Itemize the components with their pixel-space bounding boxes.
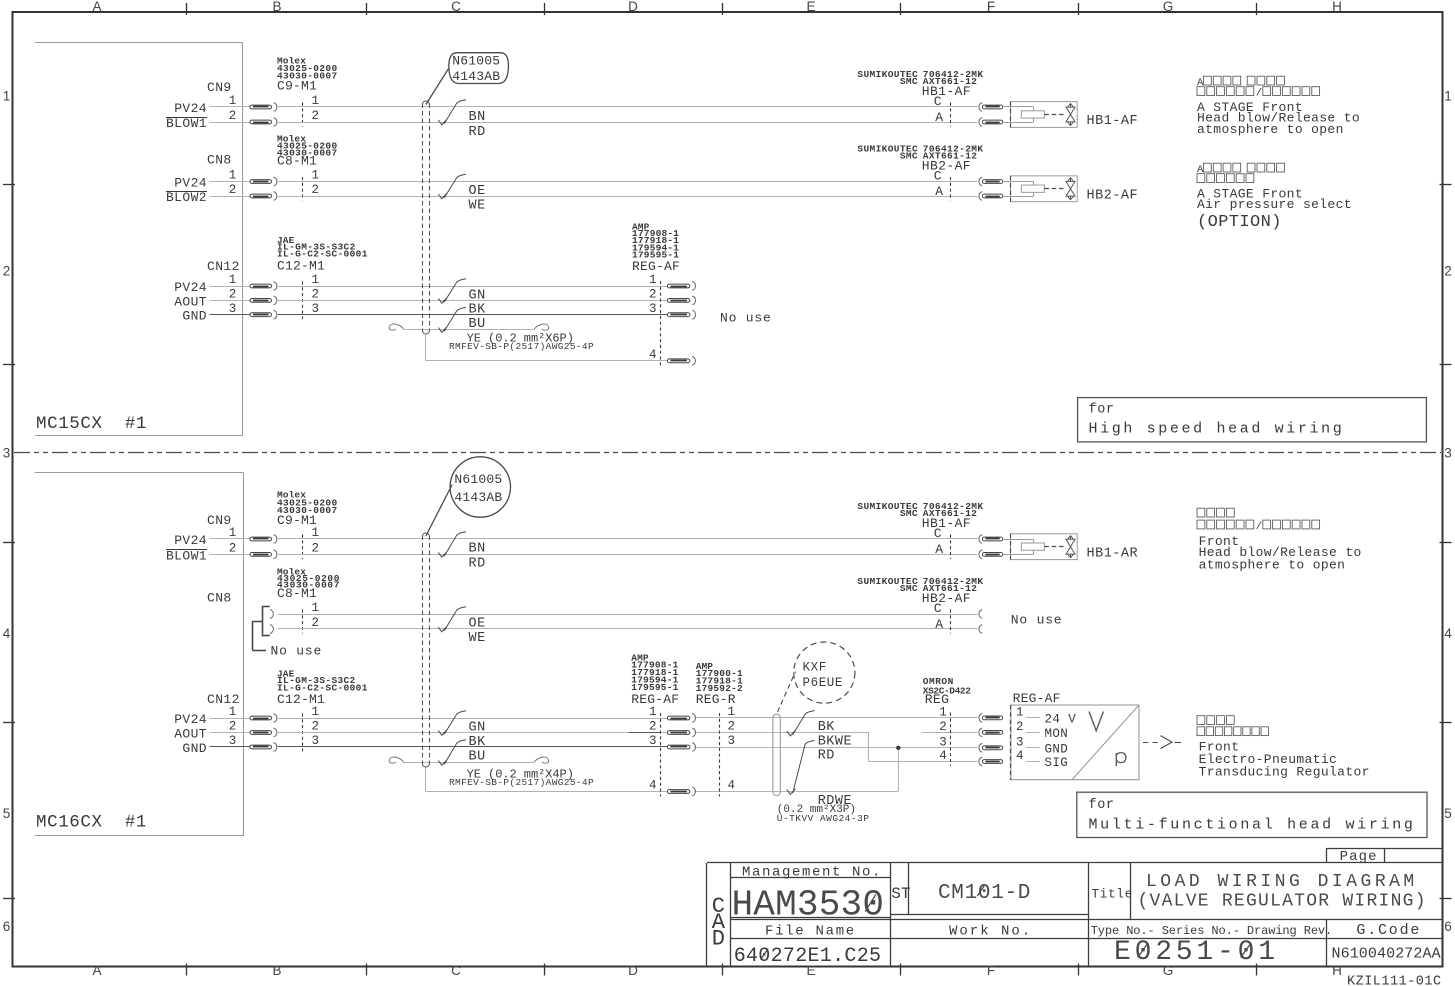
svg-text:CN12: CN12 — [207, 259, 240, 274]
svg-text:BN: BN — [469, 541, 486, 556]
svg-text:WE: WE — [469, 631, 486, 646]
svg-text:CN8: CN8 — [207, 591, 232, 606]
svg-text:5: 5 — [1444, 806, 1452, 821]
svg-text:24 V: 24 V — [1045, 713, 1077, 727]
svg-text:for: for — [1089, 798, 1115, 813]
svg-text:4143AB: 4143AB — [454, 490, 502, 505]
svg-text:BLOW1: BLOW1 — [166, 116, 207, 131]
svg-text:GND: GND — [1045, 742, 1069, 756]
svg-text:SMC: SMC — [900, 583, 918, 594]
svg-text:File Name: File Name — [765, 924, 856, 940]
svg-text:Management No.: Management No. — [742, 865, 882, 881]
svg-text:HB1-AF: HB1-AF — [922, 84, 971, 99]
svg-text:2: 2 — [312, 183, 320, 197]
svg-text:C: C — [451, 0, 461, 14]
svg-text:PV24: PV24 — [174, 533, 207, 548]
svg-text:1: 1 — [312, 273, 320, 287]
svg-text:GND: GND — [182, 309, 207, 324]
svg-text:C12-M1: C12-M1 — [277, 259, 325, 274]
svg-text:4: 4 — [728, 779, 736, 793]
svg-text:D: D — [712, 926, 725, 951]
svg-text:MON: MON — [1045, 727, 1069, 741]
svg-text:SMC: SMC — [900, 76, 918, 87]
svg-text:A: A — [1197, 164, 1204, 176]
svg-text:Work No.: Work No. — [949, 924, 1032, 940]
svg-text:CN9: CN9 — [207, 80, 232, 95]
svg-text:3: 3 — [1016, 735, 1024, 749]
svg-text:2: 2 — [229, 109, 237, 123]
svg-text:3: 3 — [649, 302, 657, 316]
svg-text:C: C — [934, 526, 942, 541]
svg-text:1: 1 — [229, 169, 237, 183]
svg-text:atmosphere to open: atmosphere to open — [1199, 558, 1346, 573]
svg-text:KXF: KXF — [803, 661, 827, 675]
svg-text:N61005: N61005 — [452, 53, 500, 68]
svg-text:SMC: SMC — [900, 508, 918, 519]
svg-text:HB2-AF: HB2-AF — [922, 159, 971, 174]
svg-text:HAM3530: HAM3530 — [732, 885, 885, 926]
svg-text:REG-AF: REG-AF — [1013, 691, 1061, 706]
svg-text:HB1-AF: HB1-AF — [922, 516, 971, 531]
svg-text:A: A — [92, 0, 101, 14]
svg-text:MC16CX #1: MC16CX #1 — [36, 813, 147, 833]
svg-text:B: B — [272, 963, 281, 978]
svg-text:Multi-functional head wiring: Multi-functional head wiring — [1089, 817, 1416, 834]
svg-text:2: 2 — [312, 109, 320, 123]
svg-text:2: 2 — [312, 720, 320, 734]
svg-text:C8-M1: C8-M1 — [277, 154, 317, 169]
svg-text:4: 4 — [649, 779, 657, 793]
svg-text:C: C — [451, 963, 461, 978]
svg-text:1: 1 — [229, 526, 237, 540]
svg-text:1: 1 — [312, 705, 320, 719]
svg-text:4: 4 — [1016, 749, 1024, 763]
svg-text:1: 1 — [728, 705, 736, 719]
svg-text:A: A — [935, 542, 943, 557]
svg-text:Transducing Regulator: Transducing Regulator — [1199, 765, 1370, 780]
svg-text:CN8: CN8 — [207, 153, 232, 168]
svg-text:2: 2 — [939, 720, 947, 734]
svg-text:2: 2 — [3, 264, 11, 279]
svg-text:RMFEV-SB-P(2517)AWG25-4P: RMFEV-SB-P(2517)AWG25-4P — [449, 777, 594, 788]
svg-text:N61005: N61005 — [454, 472, 502, 487]
svg-text:1: 1 — [229, 273, 237, 287]
svg-text:MC15CX #1: MC15CX #1 — [36, 414, 147, 434]
svg-text:/: / — [1256, 88, 1262, 100]
svg-text:BK: BK — [469, 303, 487, 318]
svg-text:D: D — [628, 963, 638, 978]
svg-text:PV24: PV24 — [174, 101, 207, 116]
svg-text:1: 1 — [3, 89, 11, 104]
svg-text:C8-M1: C8-M1 — [277, 586, 317, 601]
svg-text:1: 1 — [939, 705, 947, 719]
svg-text:6: 6 — [1444, 919, 1452, 934]
svg-text:RD: RD — [469, 556, 486, 571]
svg-text:A: A — [935, 617, 943, 632]
svg-text:G.Code: G.Code — [1356, 922, 1421, 939]
svg-text:SMC: SMC — [900, 151, 918, 162]
svg-text:F: F — [987, 0, 995, 14]
svg-text:PV24: PV24 — [174, 280, 207, 295]
svg-text:CM101-D: CM101-D — [938, 882, 1031, 905]
svg-text:No use: No use — [271, 644, 323, 659]
svg-text:High speed head wiring: High speed head wiring — [1089, 421, 1345, 438]
svg-text:2: 2 — [229, 288, 237, 302]
svg-text:C: C — [934, 94, 942, 109]
svg-text:BK: BK — [818, 720, 836, 735]
svg-text:HB1-AR: HB1-AR — [1087, 546, 1139, 561]
svg-text:BK: BK — [469, 735, 487, 750]
svg-text:1: 1 — [229, 94, 237, 108]
svg-text:for: for — [1089, 403, 1115, 418]
svg-text:HB2-AF: HB2-AF — [922, 591, 971, 606]
svg-text:3: 3 — [229, 302, 237, 316]
svg-text:HB1-AF: HB1-AF — [1087, 114, 1139, 129]
svg-text:G: G — [1163, 0, 1174, 14]
svg-text:5: 5 — [3, 806, 11, 821]
svg-text:OE: OE — [469, 616, 486, 631]
svg-text:1: 1 — [1016, 705, 1024, 719]
svg-text:LOAD WIRING DIAGRAM: LOAD WIRING DIAGRAM — [1146, 872, 1418, 892]
svg-text:E0251-01: E0251-01 — [1114, 937, 1279, 968]
svg-text:REG-AF: REG-AF — [632, 259, 680, 274]
svg-text:WE: WE — [469, 198, 486, 213]
svg-text:3: 3 — [649, 734, 657, 748]
svg-text:H: H — [1332, 963, 1342, 978]
svg-text:1: 1 — [312, 169, 320, 183]
svg-text:No use: No use — [1011, 613, 1063, 628]
svg-text:A: A — [1197, 77, 1204, 89]
svg-text:4: 4 — [1444, 626, 1452, 641]
svg-text:4: 4 — [649, 348, 657, 362]
svg-text:A: A — [92, 963, 101, 978]
svg-text:RD: RD — [469, 125, 486, 140]
svg-text:3: 3 — [3, 446, 11, 461]
svg-text:3: 3 — [229, 734, 237, 748]
svg-text:2: 2 — [229, 720, 237, 734]
svg-text:PV24: PV24 — [174, 176, 207, 191]
svg-text:C: C — [934, 601, 942, 616]
svg-text:BU: BU — [469, 317, 486, 332]
svg-text:GN: GN — [469, 288, 486, 303]
svg-text:1: 1 — [649, 273, 657, 287]
svg-text:BKWE: BKWE — [818, 734, 852, 749]
svg-text:BLOW1: BLOW1 — [166, 548, 207, 563]
svg-text:2: 2 — [1016, 720, 1024, 734]
svg-text:D: D — [628, 0, 638, 14]
svg-text:4143AB: 4143AB — [452, 69, 500, 84]
svg-text:GN: GN — [469, 720, 486, 735]
svg-text:(OPTION): (OPTION) — [1197, 213, 1282, 232]
svg-text:(VALVE REGULATOR WIRING): (VALVE REGULATOR WIRING) — [1138, 892, 1427, 912]
svg-text:F: F — [987, 963, 995, 978]
svg-text:BU: BU — [469, 749, 486, 764]
svg-text:HB2-AF: HB2-AF — [1087, 188, 1139, 203]
svg-text:C: C — [934, 169, 942, 184]
svg-text:E: E — [806, 0, 815, 14]
svg-text:2: 2 — [1444, 264, 1452, 279]
svg-text:Page: Page — [1340, 849, 1378, 865]
svg-text:4: 4 — [939, 749, 947, 763]
svg-text:C9-M1: C9-M1 — [277, 79, 317, 94]
svg-text:2: 2 — [728, 720, 736, 734]
svg-text:No use: No use — [720, 311, 772, 326]
svg-text:RMFEV-SB-P(2517)AWG25-4P: RMFEV-SB-P(2517)AWG25-4P — [449, 341, 594, 352]
svg-text:Title: Title — [1092, 888, 1134, 902]
svg-text:2: 2 — [312, 542, 320, 556]
svg-text:2: 2 — [229, 542, 237, 556]
svg-text:BN: BN — [469, 110, 486, 125]
svg-text:PV24: PV24 — [174, 712, 207, 727]
svg-text:U-TKVV AWG24-3P: U-TKVV AWG24-3P — [777, 813, 870, 824]
svg-text:640272E1.C25: 640272E1.C25 — [734, 945, 882, 968]
svg-text:H: H — [1332, 0, 1342, 14]
svg-text:GND: GND — [182, 741, 207, 756]
svg-text:3: 3 — [1444, 446, 1452, 461]
svg-text:/: / — [1256, 521, 1262, 533]
svg-text:2: 2 — [312, 288, 320, 302]
svg-text:KZIL111-01C: KZIL111-01C — [1347, 974, 1442, 986]
svg-text:1: 1 — [1444, 89, 1452, 104]
svg-text:A: A — [935, 184, 943, 199]
svg-text:P6EUE: P6EUE — [803, 676, 844, 690]
svg-text:Air pressure select: Air pressure select — [1197, 197, 1352, 212]
svg-text:Type No.- Series No.- Drawing: Type No.- Series No.- Drawing Rev. — [1091, 924, 1332, 938]
svg-text:AOUT: AOUT — [174, 294, 207, 309]
svg-text:1: 1 — [649, 705, 657, 719]
svg-text:N610040272AA: N610040272AA — [1332, 946, 1441, 963]
svg-text:3: 3 — [728, 734, 736, 748]
svg-text:OE: OE — [469, 184, 486, 199]
svg-text:6: 6 — [3, 919, 11, 934]
svg-text:A: A — [935, 110, 943, 125]
svg-text:B: B — [272, 0, 281, 14]
svg-text:SIG: SIG — [1045, 756, 1069, 770]
svg-text:atmosphere to open: atmosphere to open — [1197, 122, 1344, 137]
svg-text:ST: ST — [891, 885, 910, 903]
svg-text:3: 3 — [939, 735, 947, 749]
svg-text:2: 2 — [649, 720, 657, 734]
svg-text:AOUT: AOUT — [174, 727, 207, 742]
svg-text:3: 3 — [312, 302, 320, 316]
svg-text:2: 2 — [649, 288, 657, 302]
svg-text:1: 1 — [312, 601, 320, 615]
svg-text:RD: RD — [818, 749, 835, 764]
svg-text:BLOW2: BLOW2 — [166, 190, 207, 205]
svg-text:2: 2 — [229, 183, 237, 197]
svg-text:4: 4 — [3, 626, 11, 641]
svg-text:1: 1 — [229, 705, 237, 719]
